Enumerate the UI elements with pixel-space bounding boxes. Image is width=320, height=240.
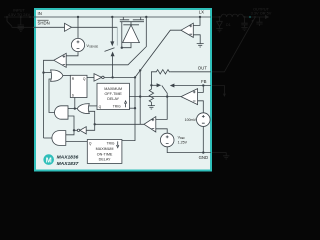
wire shdn buffer output	[72, 26, 118, 28]
overline SHDN	[38, 19, 49, 21]
svg-text:1.25V: 1.25V	[178, 140, 188, 144]
box off-time labels	[104, 87, 122, 101]
box MAXIMUM ON-TIME DELAY	[87, 140, 122, 164]
wire FB external with arrow	[211, 86, 224, 94]
node label INPUT	[8, 8, 31, 17]
svg-text:DELAY: DELAY	[107, 97, 119, 101]
ground D1	[216, 29, 222, 32]
wire trig to off-time box	[129, 107, 135, 109]
svg-text:3.3V OR 5V: 3.3V OR 5V	[251, 10, 272, 15]
op-amp U5 error comparator B	[144, 117, 156, 132]
wire diode anode to switch node	[122, 43, 131, 48]
inverter U6	[80, 127, 86, 134]
svg-text:FB: FB	[201, 79, 207, 84]
ground COUT	[241, 27, 247, 30]
svg-text:OUT: OUT	[198, 65, 207, 70]
wire latch Q to inverter	[87, 76, 94, 78]
latch pin labels	[72, 77, 86, 98]
source 100mV	[197, 113, 211, 127]
wire OUT pin to output node	[211, 18, 255, 72]
wire Vsense to comparator plus	[66, 52, 78, 56]
svg-text:DELAY: DELAY	[99, 158, 111, 162]
svg-text:Q: Q	[89, 142, 92, 146]
diode body	[123, 22, 139, 25]
wire U1 minus input to LX sense	[66, 17, 146, 65]
logo maxim	[43, 154, 54, 165]
node INPUT rail	[4, 16, 34, 18]
inductor L1	[211, 14, 265, 17]
or-gate OR2 (points left)	[77, 104, 89, 114]
wire shdn drive drop (light)	[116, 27, 118, 45]
wire drive diagonal to driver amp	[135, 30, 181, 77]
wire SHDN	[33, 26, 65, 28]
wire OR2 input1 from off-time Q	[89, 105, 97, 107]
svg-text:IN: IN	[38, 11, 42, 16]
ground GND pin	[223, 156, 229, 159]
or-gate OR1	[51, 70, 63, 81]
wire switch node down to comparator B	[156, 97, 167, 120]
wire comparator A out to off-time box	[129, 96, 181, 98]
svg-text:D1: D1	[226, 23, 231, 27]
wire FB pin line	[174, 85, 211, 87]
svg-text:Q: Q	[83, 77, 86, 81]
wire GND external	[211, 153, 226, 156]
and-gate AND1 (points left)	[55, 106, 69, 119]
wire node to AND1 input2	[68, 116, 74, 130]
wire U6 out node	[74, 129, 77, 131]
buffer U-shdn	[65, 23, 72, 31]
svg-text:MAXIMUM: MAXIMUM	[96, 147, 114, 151]
IC block MAX1836 outline	[35, 9, 211, 171]
wire switch lower with up arrow	[111, 53, 114, 56]
box on-time labels	[96, 147, 114, 162]
wire OR1 to latch R	[63, 75, 70, 77]
junction dots external	[6, 16, 256, 18]
svg-text:TRIG: TRIG	[107, 142, 115, 146]
wire latch S drop	[74, 98, 76, 109]
source VREF	[160, 133, 174, 147]
wire VREF to GND rail	[167, 147, 211, 153]
svg-text:TRIG: TRIG	[113, 105, 121, 109]
wire U1 output to OR1 and AND2 rail	[44, 60, 54, 138]
wire IN to Vsense source	[77, 17, 79, 38]
svg-text:MAX1837: MAX1837	[57, 161, 79, 167]
wire divider node arrow right	[151, 84, 157, 86]
wire U5 output to logic	[95, 123, 144, 125]
wire SHDN external with switch	[7, 17, 34, 27]
wire inverter out to drive node	[104, 76, 135, 78]
wire U5 minus to VREF	[156, 129, 167, 133]
wire U5 out branch to inverter U6	[86, 124, 95, 130]
wire U3 minus to ground	[193, 35, 200, 44]
ground R2	[148, 106, 155, 109]
svg-text:Q: Q	[99, 105, 102, 109]
resistor R2 internal bottom	[149, 85, 153, 105]
ground U3	[197, 44, 204, 47]
wire AND2 out to rail	[44, 137, 54, 139]
svg-text:100mV: 100mV	[185, 118, 197, 122]
wire 100mV to GND rail	[202, 126, 204, 152]
svg-text:SHDN: SHDN	[38, 21, 50, 26]
wire R1 to divider node	[151, 72, 155, 86]
switch blade gate drive	[105, 48, 115, 52]
label MAX1836 MAX1837	[57, 155, 79, 167]
resistor R1 internal top	[155, 70, 171, 74]
wire node to AND2 input1	[66, 130, 74, 135]
svg-text:MAX1836: MAX1836	[57, 155, 79, 161]
op-amp U4 error comparator A	[181, 89, 198, 105]
wire U5 out branch up to OR2	[89, 111, 95, 124]
wire U3 plus to LX	[193, 17, 200, 25]
inverter U2	[94, 74, 102, 81]
svg-text:4.5V TO 24V: 4.5V TO 24V	[8, 12, 31, 17]
wire AND2 input2 from on-time Q	[66, 140, 88, 142]
capacitor COUT	[241, 17, 247, 27]
svg-text:ON-TIME: ON-TIME	[97, 152, 113, 156]
svg-text:GND: GND	[199, 155, 209, 160]
op-amp U3 gate driver	[181, 23, 193, 37]
svg-text:M: M	[46, 155, 52, 164]
box MAXIMUM OFF-TIME DELAY	[97, 83, 129, 109]
wire AND1 out to OR1 input2	[49, 79, 55, 113]
capacitor COUT2 polarized	[252, 17, 263, 26]
wire driver sense vertical	[139, 70, 141, 124]
svg-text:OFF-TIME: OFF-TIME	[104, 92, 122, 96]
wire trig rail vertical	[122, 77, 135, 140]
source VSENSE	[71, 38, 84, 51]
transistor Q1 PMOS	[120, 17, 144, 22]
wire IN top rail	[33, 16, 211, 18]
ground input side	[18, 28, 24, 31]
wire gate of pass transistor	[121, 22, 123, 48]
wire OR2 out to latch S and AND1	[68, 108, 77, 110]
switch FB select blade	[162, 86, 167, 97]
latch SR	[70, 75, 87, 97]
node label OUTPUT	[251, 6, 272, 15]
and-gate AND2 (points left)	[52, 131, 66, 146]
capacitor CIN	[18, 17, 24, 28]
wire IN rail to switch arrow	[111, 17, 113, 42]
diode D1	[217, 17, 223, 29]
wire U4 plus to FB node	[198, 86, 204, 93]
wire OR1 input1 stub	[44, 72, 52, 74]
op-amp U1 current sense comparator	[54, 53, 66, 67]
wire U4 minus to 100mV source	[198, 101, 204, 113]
svg-text:LX: LX	[199, 10, 204, 15]
wire OUTPUT arrow	[265, 15, 269, 19]
wire OUT pin line	[171, 71, 211, 73]
svg-text:MAXIMUM: MAXIMUM	[104, 87, 122, 91]
